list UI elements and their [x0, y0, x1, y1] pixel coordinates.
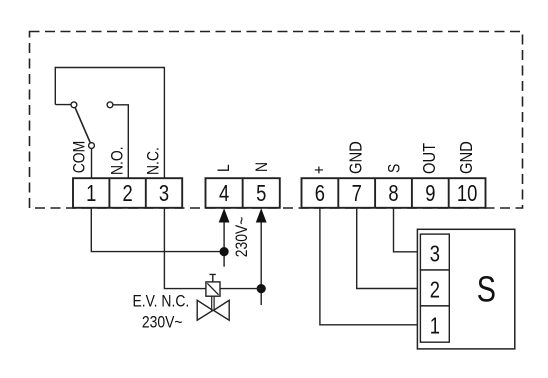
relay blade end contact circle	[89, 143, 95, 149]
sensor terminal 1 box	[420, 306, 449, 342]
wire N.C. to terminal 3	[163, 67, 165, 178]
svg-text:230V~: 230V~	[233, 217, 252, 258]
svg-text:N: N	[253, 162, 272, 172]
valve stem double line	[212, 296, 214, 310]
svg-text:N.C.: N.C.	[144, 147, 163, 175]
wire terminal 3 to valve coil	[164, 208, 206, 289]
svg-text:1: 1	[430, 314, 440, 339]
svg-text:GND: GND	[457, 141, 477, 174]
wire terminal 7 to sensor 2	[357, 208, 421, 289]
N arrow into terminal 5	[256, 208, 267, 222]
sensor terminal 2 box	[420, 270, 449, 306]
svg-text:9: 9	[425, 181, 435, 206]
relay N.O. contact circle	[107, 102, 113, 108]
svg-text:4: 4	[219, 181, 229, 206]
L supply line	[223, 214, 225, 267]
L arrow into terminal 4	[219, 208, 230, 222]
dashed enclosure border	[30, 32, 523, 209]
wire valve coil to N junction	[220, 288, 261, 290]
terminal block 6-10	[302, 178, 486, 208]
terminal block 1-3	[73, 178, 182, 208]
svg-text:230V~: 230V~	[142, 313, 183, 332]
svg-text:+: +	[310, 166, 329, 174]
valve body left triangle	[197, 300, 213, 320]
junction dot L	[220, 247, 229, 256]
valve actuator stem	[210, 274, 216, 282]
svg-text:GND: GND	[346, 141, 366, 174]
svg-text:COM: COM	[70, 141, 89, 174]
svg-text:S: S	[477, 268, 496, 309]
wire N.O. contact to terminal 2	[113, 105, 128, 178]
valve coil box	[206, 282, 220, 296]
wire terminal 6 to sensor 1	[320, 208, 421, 325]
terminal block 4-5	[206, 178, 280, 208]
svg-text:3: 3	[430, 242, 440, 267]
svg-text:7: 7	[352, 181, 362, 206]
sensor S box	[417, 229, 514, 349]
valve body right triangle	[214, 300, 230, 320]
wire to pivot	[55, 104, 72, 106]
svg-text:2: 2	[122, 181, 132, 206]
relay blade	[74, 105, 92, 146]
wire terminal 1 to L junction	[91, 208, 224, 252]
wire terminal 8 to sensor 3	[394, 208, 421, 252]
svg-text:5: 5	[256, 181, 266, 206]
wire relay left vertical	[54, 67, 56, 105]
svg-text:L: L	[215, 164, 234, 172]
valve coil diagonal	[207, 283, 218, 295]
svg-text:S: S	[385, 164, 404, 173]
wire blade to terminal 1	[91, 149, 93, 179]
junction dot N	[257, 284, 266, 293]
svg-text:8: 8	[388, 181, 398, 206]
svg-text:2: 2	[430, 278, 440, 303]
N supply line	[260, 214, 262, 305]
relay pivot contact circle	[71, 102, 77, 108]
svg-text:10: 10	[457, 181, 477, 206]
sensor terminal 3 box	[420, 234, 449, 270]
svg-text:OUT: OUT	[420, 143, 440, 174]
svg-text:3: 3	[159, 181, 169, 206]
wire relay top	[55, 67, 164, 69]
svg-text:1: 1	[86, 181, 96, 206]
svg-text:E.V. N.C.: E.V. N.C.	[133, 292, 190, 311]
svg-text:N.O.: N.O.	[108, 146, 127, 175]
svg-text:6: 6	[315, 181, 325, 206]
